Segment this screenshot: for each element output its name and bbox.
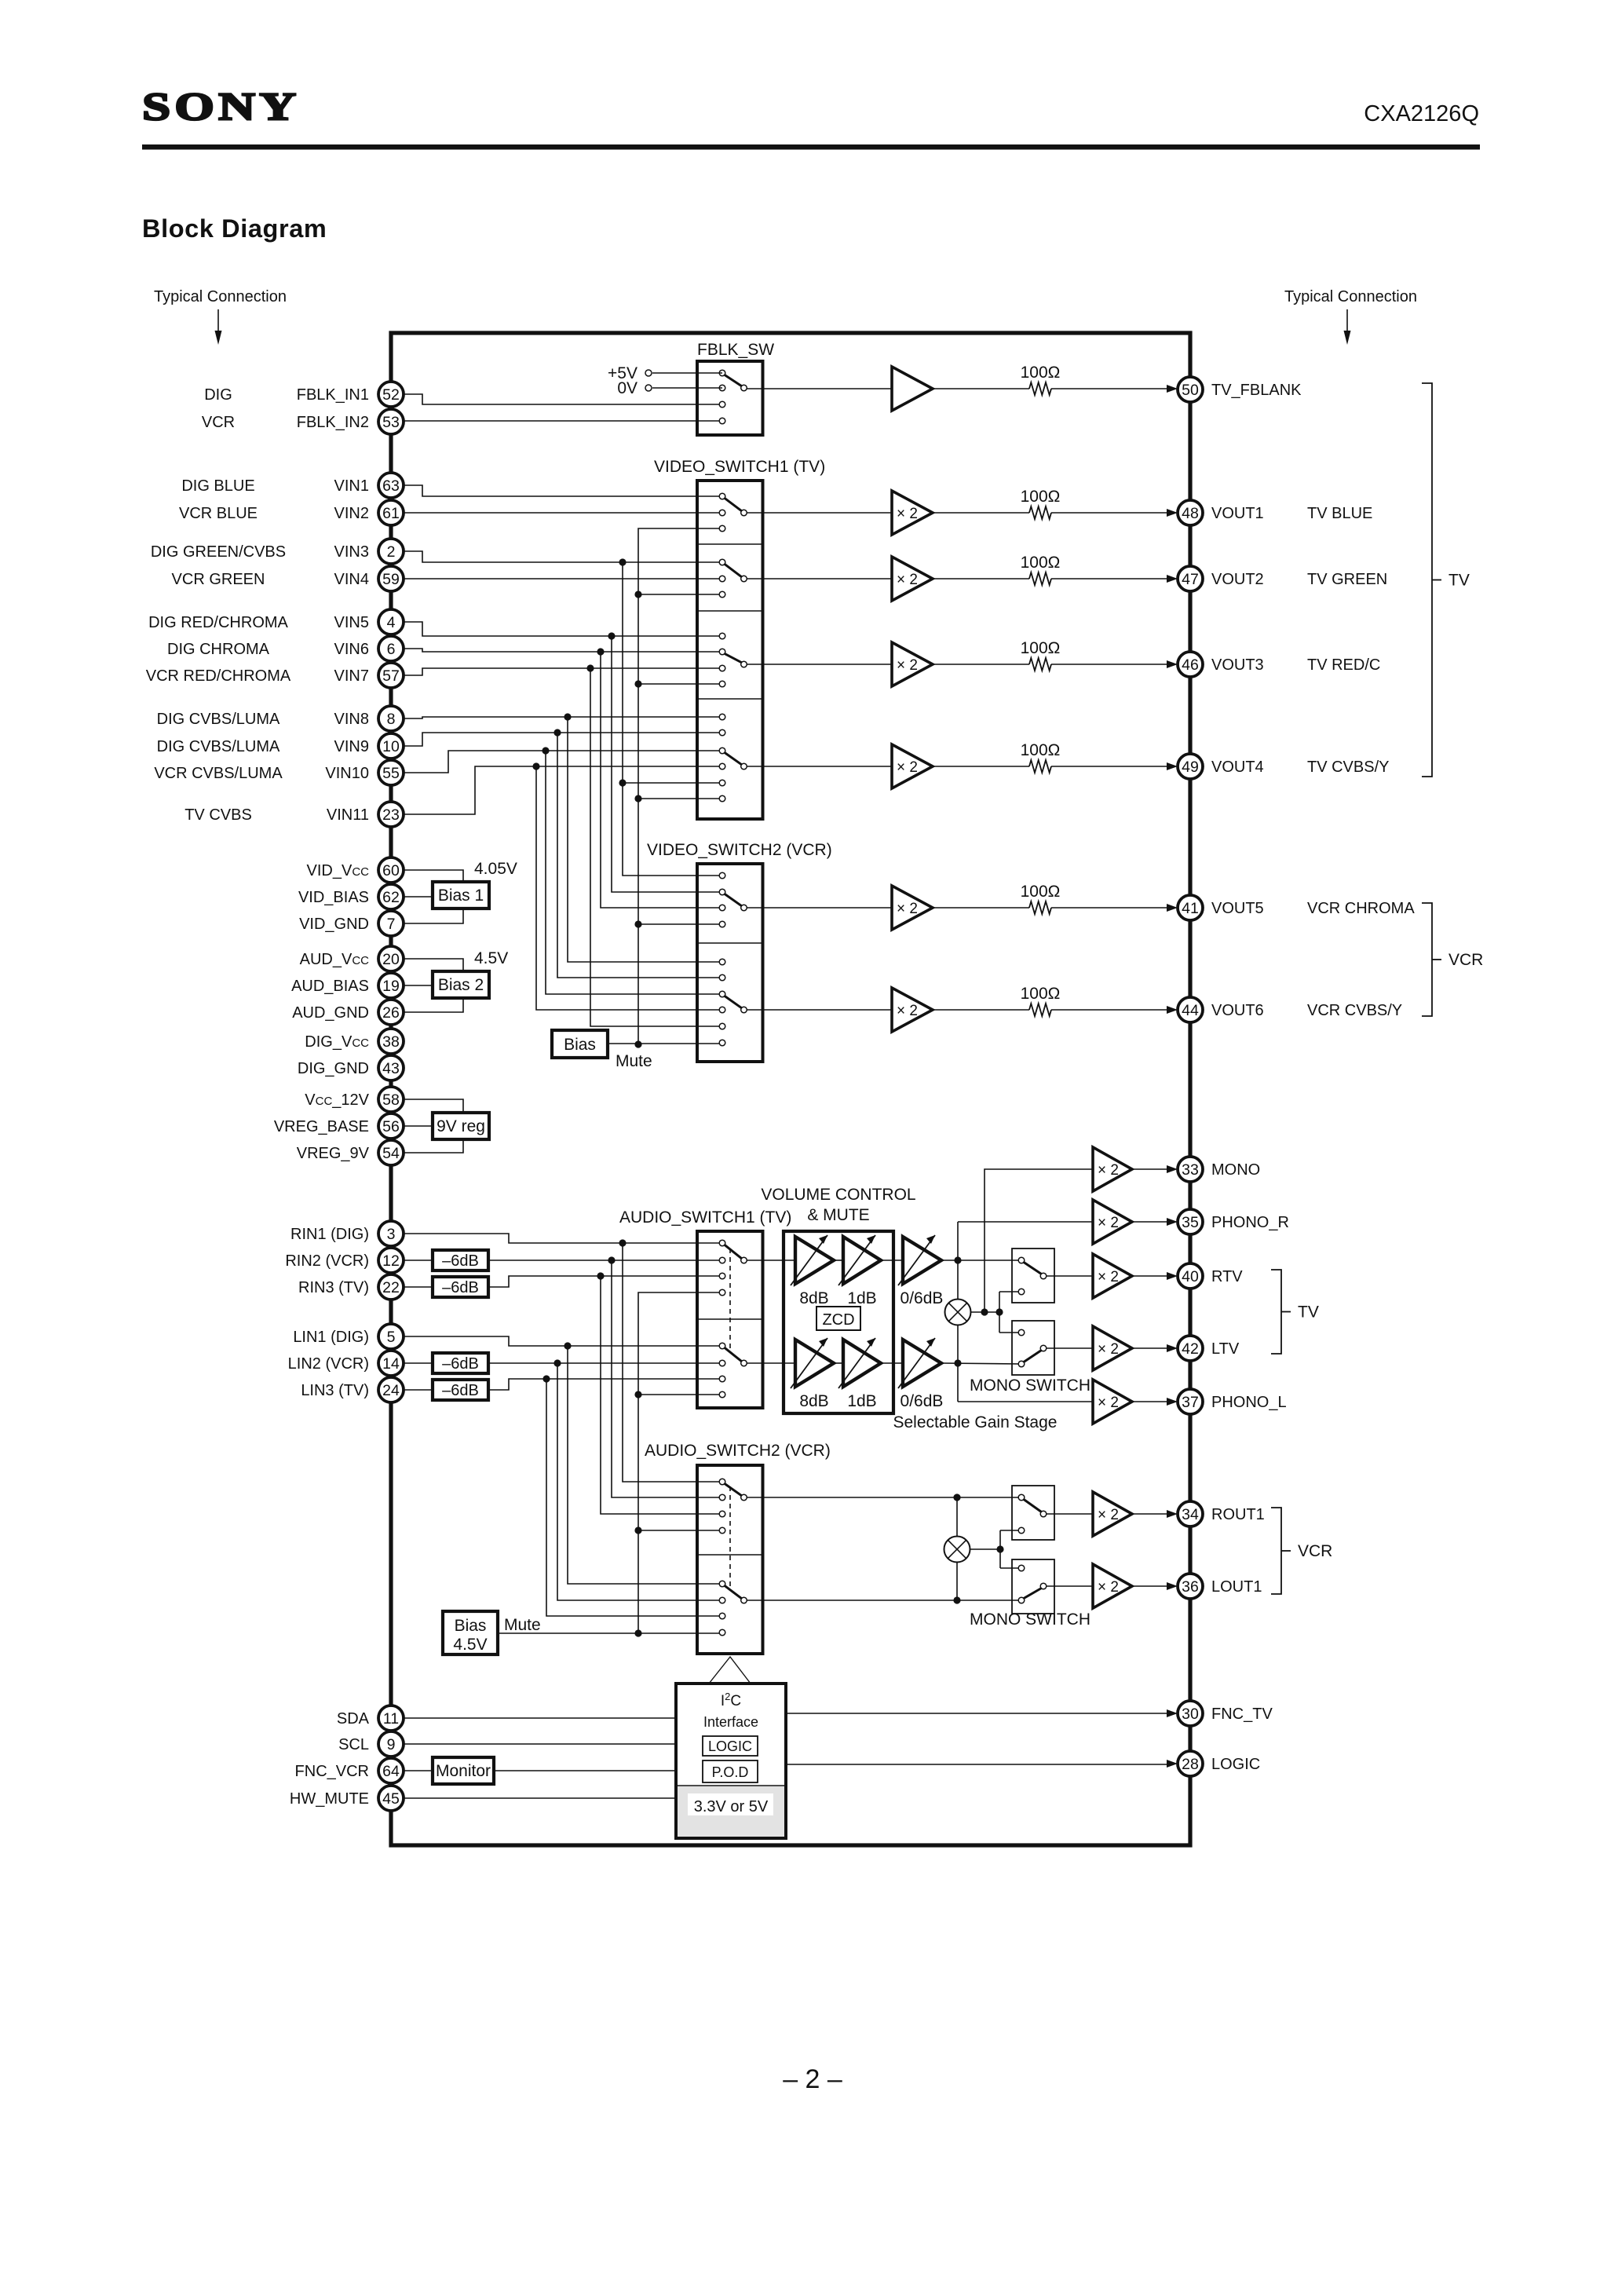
svg-text:30: 30: [1182, 1706, 1199, 1723]
wire stub mute row757: [638, 594, 722, 595]
svg-text:& MUTE: & MUTE: [807, 1206, 869, 1224]
wire bus VIN7 vertical: [590, 668, 722, 1026]
svg-text:VOUT3: VOUT3: [1211, 656, 1264, 674]
svg-text:58: 58: [382, 1091, 400, 1109]
block Bias (video mute): [552, 1030, 608, 1058]
wire VIN8 pin8 to VIDEO_SWITCH1: [402, 717, 722, 718]
svg-text:4.05V: 4.05V: [474, 860, 517, 878]
svg-text:26: 26: [382, 1004, 400, 1022]
pin 64 FNC_VCR: [295, 1758, 404, 1783]
switch AUDIO_SWITCH1 (TV): [619, 1208, 791, 1408]
svg-text:100Ω: 100Ω: [1021, 554, 1061, 572]
volume amp 8dB (L): [791, 1338, 834, 1388]
wire mixer to PHONO_L vertical: [957, 1325, 959, 1402]
svg-text:LIN1 (DIG): LIN1 (DIG): [293, 1329, 369, 1346]
op-amp buffer x2 (VOUT1): [892, 491, 933, 535]
junction (813,871): [634, 680, 641, 687]
pin 48 VOUT1: [1178, 500, 1264, 525]
wire resistor to pin (TV_FBLANK): [1051, 385, 1178, 393]
pin 23 VIN11: [327, 802, 404, 827]
svg-text:Monitor: Monitor: [436, 1762, 491, 1780]
wire L channel node: [941, 1363, 1021, 1364]
svg-text:–6dB: –6dB: [442, 1252, 479, 1270]
pin 63 VIN1: [334, 473, 404, 498]
wire amp to resistor (TV_FBLANK): [933, 388, 1029, 389]
svg-text:SONY: SONY: [142, 84, 300, 128]
block Bias 2: [433, 971, 489, 998]
svg-text:62: 62: [382, 889, 400, 906]
svg-text:12: 12: [382, 1252, 400, 1270]
volume amp 1dB (R): [838, 1235, 881, 1285]
pin 46 VOUT3: [1178, 652, 1264, 677]
svg-text:24: 24: [382, 1382, 400, 1399]
0V input: [617, 379, 722, 397]
svg-text:Typical Connection: Typical Connection: [1284, 288, 1417, 305]
svg-text:100Ω: 100Ω: [1021, 639, 1061, 657]
svg-text:–6dB: –6dB: [442, 1279, 479, 1296]
svg-text:1dB: 1dB: [847, 1289, 876, 1307]
op-amp buffer x2 (VOUT6): [892, 988, 933, 1032]
svg-text:× 2: × 2: [897, 506, 918, 522]
node VCR CVBS/Y (external, pin 44): [1307, 1002, 1402, 1019]
wire switch output to amp (VOUT4): [747, 766, 892, 767]
wire PHONO_L horizontal: [958, 1401, 1093, 1402]
wire VIN2 pin61 to VIDEO_SWITCH1: [402, 512, 722, 514]
wire resistor to pin (VOUT1): [1051, 509, 1178, 517]
svg-text:56: 56: [382, 1118, 400, 1135]
block -6dB (LIN3): [433, 1380, 488, 1400]
svg-text:22: 22: [382, 1279, 400, 1296]
svg-text:7: 7: [387, 916, 396, 933]
wire switch output to amp (TV_FBLANK): [747, 388, 892, 389]
wire VID_Vcc pin60 to Bias1: [402, 870, 463, 882]
wire 8dB to 1dB (R): [834, 1260, 843, 1261]
svg-text:TV BLUE: TV BLUE: [1307, 505, 1372, 522]
wire VIN3 pin2 to VIDEO_SWITCH1: [402, 551, 722, 562]
svg-text:8dB: 8dB: [799, 1289, 828, 1307]
svg-text:9V reg: 9V reg: [437, 1117, 485, 1135]
svg-text:44: 44: [1182, 1002, 1199, 1019]
node TV BLUE (external, pin 48): [1307, 505, 1372, 522]
resistor 100 ohm (VOUT3): [1021, 639, 1061, 671]
svg-text:LOGIC: LOGIC: [1211, 1756, 1260, 1773]
pin 19 AUD_BIAS: [291, 973, 404, 998]
switch section (output y=1736): [719, 1343, 747, 1398]
connector triangle AUDIO_SWITCH2 to I2C: [709, 1657, 751, 1684]
mono switch (ROUT1): [1012, 1486, 1054, 1540]
bracket VCR (video outputs): [1422, 903, 1483, 1016]
wire mixer output: [971, 1311, 1000, 1313]
label Mute (video): [616, 1052, 652, 1070]
svg-text:TV CVBS/Y: TV CVBS/Y: [1307, 759, 1389, 776]
svg-text:TV_FBLANK: TV_FBLANK: [1211, 382, 1302, 399]
block 3.3V or 5V: [678, 1786, 784, 1837]
wire amp to resistor (VOUT1): [933, 512, 1029, 514]
svg-text:MONO SWITCH: MONO SWITCH: [970, 1610, 1090, 1629]
wire resistor to pin (VOUT6): [1051, 1006, 1178, 1014]
junction (752,851): [586, 664, 594, 671]
wire mono feed to MONO amp: [985, 1169, 1093, 1312]
svg-text:AUD_BIAS: AUD_BIAS: [291, 978, 369, 995]
wire bus RIN3 vertical: [601, 1276, 722, 1514]
svg-text:VREG_9V: VREG_9V: [297, 1145, 370, 1162]
svg-text:34: 34: [1182, 1506, 1199, 1523]
svg-text:TV CVBS: TV CVBS: [184, 806, 252, 824]
svg-text:VCR GREEN: VCR GREEN: [172, 571, 265, 588]
wire switch output to amp (VOUT1): [747, 512, 892, 514]
svg-text:FNC_VCR: FNC_VCR: [295, 1763, 369, 1780]
pin 20 AUD_Vcc: [300, 946, 404, 971]
wire LIN2 pin14 to -6dB: [402, 1362, 433, 1364]
switch section (output y=846): [719, 633, 747, 687]
wire switch output to amp (VOUT6): [747, 1009, 892, 1011]
svg-text:8: 8: [387, 711, 396, 728]
svg-text:40: 40: [1182, 1268, 1199, 1285]
svg-text:20: 20: [382, 951, 400, 968]
svg-text:–6dB: –6dB: [442, 1382, 479, 1399]
svg-text:5: 5: [387, 1329, 396, 1346]
svg-text:VOUT1: VOUT1: [1211, 505, 1264, 522]
wire FBLK_IN1 pin52 to FBLK_SW: [402, 394, 722, 404]
svg-text:VOLUME CONTROL: VOLUME CONTROL: [761, 1186, 915, 1204]
svg-text:45: 45: [382, 1790, 400, 1808]
op-amp buffer x2 (VOUT2): [892, 557, 933, 601]
mono switch (RTV): [1012, 1249, 1054, 1303]
wire bus VIN3 vertical: [623, 562, 722, 876]
op-amp x2 (RTV): [1093, 1254, 1132, 1298]
svg-text:MONO: MONO: [1211, 1161, 1260, 1179]
node VCR (external, pin 53): [202, 414, 235, 431]
wire ROUT1 switch to amp: [1047, 1513, 1093, 1515]
pin 45 HW_MUTE: [290, 1786, 404, 1811]
svg-text:× 2: × 2: [897, 657, 918, 674]
gain amp 0/6dB (L): [898, 1338, 941, 1388]
junction (1273,1671): [995, 1308, 1003, 1315]
pin 4 VIN5: [334, 609, 404, 634]
wire resistor to pin (VOUT2): [1051, 575, 1178, 583]
wire LIN3 -6dB to AUDIO_SWITCH1: [488, 1379, 722, 1390]
svg-text:VID_BIAS: VID_BIAS: [298, 889, 369, 906]
wire I2C to FNC_TV: [786, 1709, 1178, 1717]
svg-text:× 2: × 2: [1098, 1579, 1119, 1596]
node VCR CHROMA (external, pin 41): [1307, 900, 1415, 917]
label MONO SWITCH (VCR): [970, 1610, 1090, 1629]
wire RIN3 -6dB to AUDIO_SWITCH1: [488, 1276, 722, 1287]
junction (813,1330): [634, 1040, 641, 1047]
op-amp buffer x2 (VOUT4): [892, 744, 933, 788]
svg-text:LIN3 (TV): LIN3 (TV): [301, 1382, 369, 1399]
wire VID_BIAS pin62 to Bias1: [402, 896, 433, 898]
bracket VCR (audio outputs): [1271, 1508, 1332, 1594]
gain amp 0/6dB (R): [898, 1235, 941, 1285]
svg-text:36: 36: [1182, 1578, 1199, 1596]
junction (695,956): [542, 747, 549, 754]
wire LIN3 pin24 to -6dB: [402, 1389, 433, 1391]
junction (723,913): [564, 713, 571, 720]
svg-text:FBLK_IN1: FBLK_IN1: [297, 386, 369, 404]
svg-text:VCR: VCR: [1298, 1542, 1332, 1560]
svg-text:100Ω: 100Ω: [1021, 488, 1061, 506]
switch AUDIO_SWITCH2 (VCR): [645, 1442, 831, 1654]
volume amp 1dB (L): [838, 1338, 881, 1388]
svg-text:× 2: × 2: [897, 759, 918, 776]
junction (723,1714): [564, 1342, 571, 1349]
svg-text:3.3V or 5V: 3.3V or 5V: [694, 1798, 769, 1815]
arrow below Typical Connection (left): [215, 309, 222, 345]
svg-text:DIG CVBS/LUMA: DIG CVBS/LUMA: [157, 711, 280, 728]
wire volume to 0/6dB (L): [881, 1362, 903, 1364]
svg-text:61: 61: [382, 505, 400, 522]
svg-text:VIN11: VIN11: [327, 806, 369, 824]
pin 40 RTV: [1178, 1263, 1243, 1289]
label 8dB 1dB (R): [799, 1289, 876, 1307]
svg-text:DIG_VCC: DIG_VCC: [305, 1033, 369, 1051]
svg-text:14: 14: [382, 1355, 400, 1373]
svg-text:× 2: × 2: [1098, 1341, 1119, 1358]
op-amp x2 (ROUT1): [1093, 1492, 1132, 1536]
block 9V reg: [433, 1113, 489, 1139]
wire bus LIN1 vertical: [568, 1346, 722, 1584]
op-amp x2 (LTV): [1093, 1326, 1132, 1370]
wire VIN1 pin63 to VIDEO_SWITCH1: [402, 485, 722, 496]
mixer (mono sum, TV): [945, 1300, 971, 1325]
svg-text:TV GREEN: TV GREEN: [1307, 571, 1387, 588]
svg-text:42: 42: [1182, 1340, 1199, 1358]
wire bus VIN11 vertical: [536, 766, 722, 1010]
svg-text:× 2: × 2: [1098, 1162, 1119, 1179]
wire RIN1 pin3 to AUDIO_SWITCH1: [402, 1234, 722, 1243]
junction (813,1776): [634, 1391, 641, 1398]
pin 2 VIN3: [334, 539, 404, 564]
pin 61 VIN2: [334, 500, 404, 525]
junction (779,1605): [608, 1256, 615, 1263]
wire PHONO_R horizontal: [958, 1221, 1093, 1223]
node DIG RED/CHROMA (external, pin 4): [148, 614, 288, 631]
wire switch output to amp (VOUT5): [747, 907, 892, 909]
svg-text:9: 9: [387, 1736, 396, 1753]
wire VIN6 pin6 to VIDEO_SWITCH1: [402, 649, 722, 652]
block LOGIC (inside I2C): [703, 1736, 758, 1756]
resistor 100 ohm (VOUT1): [1021, 488, 1061, 519]
junction (1220,1736): [954, 1359, 961, 1366]
wire volume to 0/6dB (R): [881, 1260, 903, 1261]
wire amp to resistor (VOUT6): [933, 1009, 1029, 1011]
label MONO SWITCH (TV): [970, 1377, 1090, 1395]
wire Bias to mute bus row1328: [608, 1043, 722, 1044]
svg-text:2: 2: [387, 543, 396, 561]
svg-text:VIN6: VIN6: [334, 641, 369, 658]
svg-text:VIDEO_SWITCH2 (VCR): VIDEO_SWITCH2 (VCR): [647, 841, 832, 859]
pin 28 LOGIC: [1178, 1751, 1260, 1776]
wire VREG_9V pin54 to 9V reg: [402, 1139, 463, 1153]
pin 57 VIN7: [334, 663, 404, 688]
op-amp x2 (LOUT1): [1093, 1564, 1132, 1608]
wire VIN9 pin10 to VIDEO_SWITCH1: [402, 733, 722, 746]
wire resistor to pin (VOUT3): [1051, 660, 1178, 668]
pin 58 Vcc_12V: [305, 1087, 404, 1112]
svg-text:43: 43: [382, 1060, 400, 1077]
wire amp to resistor (VOUT5): [933, 907, 1029, 909]
node 4.5V: [474, 949, 508, 967]
svg-text:VREG_BASE: VREG_BASE: [274, 1118, 369, 1135]
svg-text:× 2: × 2: [1098, 1215, 1119, 1231]
pin 53 FBLK_IN2: [297, 409, 404, 434]
svg-text:DIG: DIG: [204, 386, 232, 404]
label 0/6dB (R): [901, 1289, 944, 1307]
part number CXA2126Q: [1364, 101, 1479, 126]
wire VIN5 pin4 to VIDEO_SWITCH1: [402, 622, 722, 636]
svg-text:PHONO_R: PHONO_R: [1211, 1214, 1289, 1231]
node TV CVBS (external, pin 23): [184, 806, 252, 824]
node VCR RED/CHROMA (external, pin 57): [146, 667, 291, 685]
title Block Diagram: [142, 214, 327, 243]
svg-text:41: 41: [1182, 900, 1199, 917]
junction (1274,1973): [996, 1545, 1003, 1552]
wire VIN11 pin23 to VIDEO_SWITCH1: [402, 766, 722, 814]
svg-text:AUD_VCC: AUD_VCC: [300, 951, 370, 968]
svg-text:0/6dB: 0/6dB: [901, 1392, 944, 1410]
wire stub audio mute row1949: [638, 1530, 722, 1531]
svg-text:VOUT6: VOUT6: [1211, 1002, 1264, 1019]
pin 12 RIN2 (VCR): [285, 1248, 404, 1273]
pin 42 LTV: [1178, 1336, 1240, 1361]
resistor 100 ohm (VOUT5): [1021, 883, 1061, 914]
svg-text:Bias 1: Bias 1: [438, 887, 484, 905]
svg-text:47: 47: [1182, 571, 1199, 588]
wire AS2 L output: [747, 1600, 1021, 1601]
svg-text:VCR: VCR: [1448, 951, 1483, 969]
wire VREG_BASE pin56 to 9V reg: [402, 1125, 433, 1127]
svg-text:Block Diagram: Block Diagram: [142, 214, 327, 243]
svg-text:MONO SWITCH: MONO SWITCH: [970, 1377, 1090, 1395]
svg-text:VIN9: VIN9: [334, 738, 369, 755]
svg-text:× 2: × 2: [897, 572, 918, 588]
node DIG CHROMA (external, pin 6): [167, 641, 270, 658]
svg-text:AUDIO_SWITCH1 (TV): AUDIO_SWITCH1 (TV): [619, 1208, 791, 1227]
label VOLUME CONTROL & MUTE: [761, 1186, 915, 1224]
junction (813,2080): [634, 1629, 641, 1636]
svg-text:VID_VCC: VID_VCC: [307, 862, 370, 879]
pin 50 TV_FBLANK: [1178, 377, 1302, 402]
wire HW_MUTE pin45 to I2C: [402, 1797, 677, 1799]
svg-text:Mute: Mute: [504, 1616, 541, 1634]
svg-text:DIG GREEN/CVBS: DIG GREEN/CVBS: [151, 543, 286, 561]
svg-text:LOGIC: LOGIC: [708, 1738, 752, 1754]
wire amp to pin (ROUT1): [1132, 1510, 1178, 1518]
svg-text:0V: 0V: [617, 379, 637, 397]
switch section (output y=653): [719, 493, 747, 532]
svg-text:Interface: Interface: [703, 1714, 758, 1730]
junction (793,1583): [619, 1239, 626, 1246]
wire RIN2 -6dB to AUDIO_SWITCH1: [488, 1260, 722, 1261]
volume amp 8dB (R): [791, 1235, 834, 1285]
label Typical Connection (left): [154, 288, 287, 305]
wire VIN7 pin57 to VIDEO_SWITCH1: [402, 668, 722, 675]
pin 3 RIN1 (DIG): [290, 1221, 404, 1246]
pin 56 VREG_BASE: [274, 1113, 404, 1139]
svg-text:49: 49: [1182, 759, 1199, 776]
switch section (output y=737): [719, 559, 747, 598]
wire resistor to pin (VOUT5): [1051, 904, 1178, 912]
pin 9 SCL: [338, 1731, 404, 1757]
svg-text:VOUT4: VOUT4: [1211, 759, 1264, 776]
wire amp to pin (LTV): [1132, 1344, 1178, 1352]
pin 26 AUD_GND: [292, 1000, 404, 1025]
block Bias 1: [433, 882, 489, 909]
wire RIN3 pin22 to -6dB: [402, 1286, 433, 1288]
svg-text:4.5V: 4.5V: [474, 949, 508, 967]
svg-text:RTV: RTV: [1211, 1268, 1243, 1285]
block -6dB (RIN3): [433, 1277, 488, 1297]
pin 22 RIN3 (TV): [298, 1274, 404, 1300]
svg-text:57: 57: [382, 667, 400, 685]
bracket TV (video outputs): [1422, 383, 1470, 777]
switch section (output y=1286): [719, 959, 747, 1046]
node 4.05V: [474, 860, 517, 878]
junction (813,1017): [634, 795, 641, 802]
wire stub mute row871: [638, 683, 722, 685]
wire mixer vertical (VCR) top: [956, 1497, 958, 1537]
pin 11 SDA: [337, 1706, 404, 1731]
wire bus RIN1 vertical: [623, 1243, 722, 1482]
wire mono feed to mono switches (VCR): [1000, 1530, 1021, 1568]
svg-text:1dB: 1dB: [847, 1392, 876, 1410]
pin 43 DIG_GND: [298, 1055, 404, 1080]
node DIG BLUE (external, pin 63): [181, 477, 254, 495]
pin 33 MONO: [1178, 1157, 1260, 1182]
junction (710,933): [553, 729, 561, 736]
svg-text:VCR RED/CHROMA: VCR RED/CHROMA: [146, 667, 291, 685]
svg-text:VIN4: VIN4: [334, 571, 369, 588]
op-amp buffer (TV_FBLANK): [892, 367, 933, 411]
svg-text:3: 3: [387, 1226, 396, 1243]
pin 34 ROUT1: [1178, 1501, 1265, 1526]
wire PHONO_R / mixer vertical: [957, 1222, 959, 1300]
junction (765,1625): [597, 1272, 604, 1279]
svg-text:Bias 2: Bias 2: [438, 976, 484, 994]
svg-text:FNC_TV: FNC_TV: [1211, 1706, 1273, 1723]
svg-text:VCR CHROMA: VCR CHROMA: [1307, 900, 1415, 917]
wire bus VIN6 vertical: [601, 652, 722, 908]
pin 44 VOUT6: [1178, 997, 1264, 1022]
svg-text:19: 19: [382, 978, 400, 995]
resistor 100 ohm (TV_FBLANK): [1021, 364, 1061, 395]
svg-text:VIN1: VIN1: [334, 477, 369, 495]
switch section (output y=2038): [719, 1581, 747, 1636]
svg-text:DIG CHROMA: DIG CHROMA: [167, 641, 270, 658]
junction (813,757): [634, 590, 641, 598]
pin 6 VIN6: [334, 636, 404, 661]
svg-text:63: 63: [382, 477, 400, 495]
wire VIN10 pin55 to VIDEO_SWITCH1: [402, 751, 722, 773]
svg-text:DIG CVBS/LUMA: DIG CVBS/LUMA: [157, 738, 280, 755]
op-amp x2 (PHONO_R): [1093, 1200, 1132, 1244]
svg-text:100Ω: 100Ω: [1021, 883, 1061, 901]
svg-text:VIN7: VIN7: [334, 667, 369, 685]
wire FNC_VCR pin64 to Monitor: [402, 1770, 433, 1771]
junction (813,1949): [634, 1526, 641, 1534]
wire FBLK_IN2 pin53 to FBLK_SW: [402, 420, 722, 422]
wire stub mute row1017: [638, 798, 722, 799]
block ZCD: [816, 1307, 860, 1330]
node TV CVBS/Y (external, pin 49): [1307, 759, 1389, 776]
svg-text:55: 55: [382, 765, 400, 782]
svg-text:23: 23: [382, 806, 400, 824]
wire I2C to LOGIC pin: [786, 1760, 1178, 1768]
wire LIN1 pin5 to AUDIO_SWITCH1: [402, 1336, 722, 1346]
pin 37 PHONO_L: [1178, 1389, 1287, 1414]
wire AS1 L output into volume block: [747, 1362, 795, 1364]
